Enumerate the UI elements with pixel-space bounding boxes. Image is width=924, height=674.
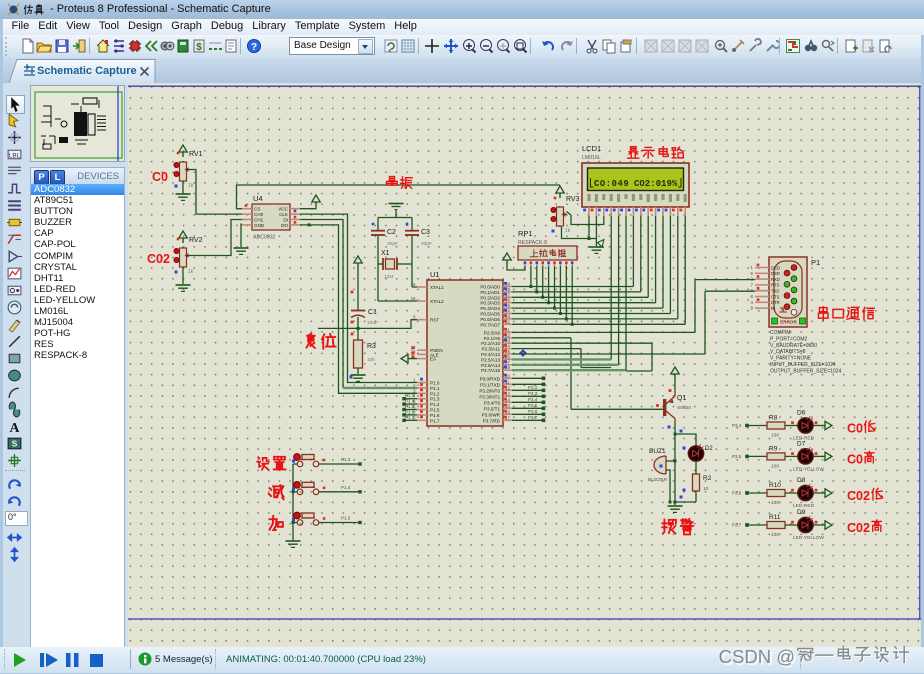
svg-text:C3: C3 bbox=[421, 229, 430, 236]
svg-text:DTR: DTR bbox=[771, 300, 780, 305]
svg-text:P3.0/RXD: P3.0/RXD bbox=[480, 376, 501, 381]
svg-text:P3.2: P3.2 bbox=[528, 385, 538, 390]
svg-text:COMPIM: COMPIM bbox=[770, 330, 791, 336]
svg-text:CO:049: CO:049 bbox=[594, 179, 629, 189]
svg-text:EA: EA bbox=[430, 357, 437, 362]
svg-text:C02: C02 bbox=[847, 489, 870, 503]
svg-text:R11: R11 bbox=[769, 514, 781, 521]
svg-text:12M: 12M bbox=[384, 274, 393, 280]
svg-text:ADC0832: ADC0832 bbox=[253, 235, 276, 241]
svg-text:P3.5/T1: P3.5/T1 bbox=[484, 406, 501, 411]
svg-text:18: 18 bbox=[411, 296, 416, 301]
svg-text:P2.5/A13: P2.5/A13 bbox=[481, 357, 500, 362]
svg-text:C2: C2 bbox=[387, 229, 396, 236]
svg-text:U1: U1 bbox=[430, 270, 440, 279]
svg-text:P1.4: P1.4 bbox=[405, 399, 415, 404]
svg-text:P3.4/T0: P3.4/T0 bbox=[484, 400, 501, 405]
svg-text:LED-YELLOW: LED-YELLOW bbox=[793, 466, 824, 472]
svg-text:RV2: RV2 bbox=[189, 237, 203, 244]
svg-text:CTS: CTS bbox=[771, 294, 780, 299]
svg-text:V_PARITY=NONE: V_PARITY=NONE bbox=[770, 356, 812, 362]
svg-text:P1.6: P1.6 bbox=[430, 413, 440, 418]
svg-text:CH0: CH0 bbox=[254, 212, 264, 217]
svg-text:30pF: 30pF bbox=[387, 241, 398, 247]
svg-text:LCD1: LCD1 bbox=[582, 144, 601, 153]
svg-text:BUZ1: BUZ1 bbox=[649, 448, 666, 455]
svg-text:P2.4/A12: P2.4/A12 bbox=[481, 352, 500, 357]
svg-text:XTAL1: XTAL1 bbox=[430, 285, 444, 290]
svg-text:CSDN @: CSDN @ bbox=[719, 646, 795, 667]
svg-text:CLK: CLK bbox=[279, 212, 289, 217]
svg-text:100: 100 bbox=[771, 500, 779, 506]
svg-text:XTAL2: XTAL2 bbox=[430, 299, 444, 304]
svg-text:10uF: 10uF bbox=[367, 320, 378, 326]
svg-text:P2.1/A9: P2.1/A9 bbox=[484, 336, 501, 341]
svg-text:C02: C02 bbox=[847, 521, 870, 535]
svg-text:RP1: RP1 bbox=[518, 229, 533, 238]
svg-text:R3: R3 bbox=[367, 343, 376, 350]
svg-text:P1: P1 bbox=[811, 258, 820, 267]
svg-text:GND: GND bbox=[254, 223, 265, 228]
svg-text:100: 100 bbox=[771, 463, 779, 469]
svg-text:P1.5: P1.5 bbox=[405, 404, 415, 409]
svg-text:R8: R8 bbox=[769, 415, 778, 422]
svg-text:RST: RST bbox=[430, 318, 439, 323]
svg-text:CO2:019%: CO2:019% bbox=[634, 179, 678, 189]
svg-text:P3.3/INT1: P3.3/INT1 bbox=[479, 394, 500, 399]
svg-text:P1.7: P1.7 bbox=[405, 415, 415, 420]
svg-text:P2.6/A14: P2.6/A14 bbox=[481, 363, 500, 368]
svg-text:V_DATABITS=8: V_DATABITS=8 bbox=[770, 349, 806, 355]
svg-text:ERROR: ERROR bbox=[780, 320, 797, 325]
svg-text:DI: DI bbox=[283, 218, 288, 223]
svg-text:D9: D9 bbox=[797, 509, 806, 516]
svg-text:S: S bbox=[12, 439, 18, 449]
svg-text:DSR: DSR bbox=[771, 271, 780, 276]
svg-text:P3.7: P3.7 bbox=[528, 415, 538, 420]
svg-text:100: 100 bbox=[771, 532, 779, 538]
svg-text:C0: C0 bbox=[152, 170, 168, 184]
svg-text:10k: 10k bbox=[367, 357, 375, 363]
svg-text:P2.0/A8: P2.0/A8 bbox=[484, 330, 501, 335]
svg-text:RXD: RXD bbox=[771, 277, 780, 282]
svg-text:P1.4: P1.4 bbox=[341, 485, 351, 490]
svg-text:S8550: S8550 bbox=[677, 405, 691, 411]
svg-text:C1: C1 bbox=[368, 309, 377, 316]
svg-text:P1.7: P1.7 bbox=[430, 418, 440, 423]
svg-text:P3.5: P3.5 bbox=[528, 403, 538, 408]
svg-text:D7: D7 bbox=[797, 440, 806, 447]
svg-text:R10: R10 bbox=[769, 482, 781, 489]
svg-text:1k: 1k bbox=[565, 228, 571, 234]
svg-text:P3.5: P3.5 bbox=[732, 454, 742, 459]
svg-text:$: $ bbox=[196, 42, 202, 53]
svg-text:R9: R9 bbox=[769, 445, 778, 452]
svg-text:100: 100 bbox=[771, 433, 779, 439]
svg-text:Q1: Q1 bbox=[677, 395, 686, 402]
svg-text:LM016L: LM016L bbox=[582, 155, 601, 161]
svg-text:BUZZER: BUZZER bbox=[648, 477, 668, 483]
svg-text:RTS: RTS bbox=[771, 283, 780, 288]
svg-text:P3.4: P3.4 bbox=[732, 423, 742, 428]
svg-text:P1.1: P1.1 bbox=[430, 386, 440, 391]
svg-text:D2: D2 bbox=[705, 446, 713, 452]
svg-text:C0: C0 bbox=[847, 422, 863, 436]
svg-text:P3.3: P3.3 bbox=[528, 391, 538, 396]
svg-text:U4: U4 bbox=[253, 194, 263, 203]
svg-text:C0: C0 bbox=[847, 452, 863, 466]
svg-text:P1.6: P1.6 bbox=[405, 409, 415, 414]
svg-text:P0.4/AD4: P0.4/AD4 bbox=[480, 306, 500, 311]
svg-text:P1.3: P1.3 bbox=[405, 393, 415, 398]
svg-text:C02: C02 bbox=[147, 252, 170, 266]
svg-text:P3.4: P3.4 bbox=[528, 397, 538, 402]
svg-text:1k: 1k bbox=[188, 183, 194, 189]
svg-text:RI: RI bbox=[771, 306, 775, 311]
svg-text:P1.3: P1.3 bbox=[341, 457, 351, 462]
svg-text:P2.3/A11: P2.3/A11 bbox=[481, 347, 500, 352]
svg-text:CH1: CH1 bbox=[254, 218, 264, 223]
svg-text:A: A bbox=[10, 420, 20, 435]
svg-text:P_PORT=COM2: P_PORT=COM2 bbox=[770, 336, 807, 342]
svg-text:P2.7/A15: P2.7/A15 bbox=[481, 368, 500, 373]
svg-text:INPUT_BUFFER_SIZE=1024: INPUT_BUFFER_SIZE=1024 bbox=[770, 362, 836, 368]
svg-text:RV1: RV1 bbox=[189, 151, 203, 158]
svg-text:P3.1/TXD: P3.1/TXD bbox=[480, 382, 501, 387]
svg-text:P1.2: P1.2 bbox=[430, 391, 440, 396]
svg-text:P0.3/AD3: P0.3/AD3 bbox=[480, 301, 500, 306]
svg-text:19: 19 bbox=[411, 282, 416, 287]
svg-text:R2: R2 bbox=[703, 475, 712, 482]
svg-text:DCD: DCD bbox=[771, 265, 780, 270]
svg-text:CS: CS bbox=[254, 207, 260, 212]
svg-text:P1.5: P1.5 bbox=[430, 408, 440, 413]
svg-text:P0.7/AD7: P0.7/AD7 bbox=[480, 322, 500, 327]
svg-text:OUTPUT_BUFFER_SIZE=1024: OUTPUT_BUFFER_SIZE=1024 bbox=[770, 368, 841, 374]
svg-text:V_BAUDRATE=9600: V_BAUDRATE=9600 bbox=[770, 343, 817, 349]
svg-text:P3.6: P3.6 bbox=[528, 409, 538, 414]
svg-text:1k: 1k bbox=[188, 269, 194, 275]
svg-text:P3.6/WR: P3.6/WR bbox=[482, 412, 501, 417]
svg-text:DO: DO bbox=[281, 223, 288, 228]
svg-text:P3.2/INT0: P3.2/INT0 bbox=[479, 388, 500, 393]
svg-text:30pF: 30pF bbox=[421, 241, 432, 247]
svg-text:X1: X1 bbox=[381, 250, 390, 257]
svg-text:P0.0/AD0: P0.0/AD0 bbox=[480, 285, 500, 290]
svg-text:P1.3: P1.3 bbox=[430, 397, 440, 402]
svg-text:RV3: RV3 bbox=[566, 196, 580, 203]
svg-text:D8: D8 bbox=[797, 477, 806, 484]
svg-text:D6: D6 bbox=[797, 410, 806, 417]
svg-text:P1.4: P1.4 bbox=[430, 402, 440, 407]
svg-text:VCC: VCC bbox=[278, 207, 288, 212]
svg-text:P1.5: P1.5 bbox=[341, 516, 351, 521]
svg-text:P3.7/RD: P3.7/RD bbox=[483, 418, 501, 423]
svg-text:TXD: TXD bbox=[771, 289, 779, 294]
svg-text:P0.6/AD6: P0.6/AD6 bbox=[480, 317, 500, 322]
svg-text:LBL: LBL bbox=[9, 153, 21, 160]
svg-text:P2.2/A10: P2.2/A10 bbox=[481, 341, 500, 346]
svg-text:?: ? bbox=[251, 42, 257, 53]
svg-text:RESPACK-8: RESPACK-8 bbox=[518, 240, 547, 246]
svg-text:P1.0: P1.0 bbox=[430, 381, 440, 386]
svg-text:P3.6: P3.6 bbox=[732, 491, 742, 496]
svg-text:P0.1/AD1: P0.1/AD1 bbox=[480, 290, 500, 295]
svg-text:P3.7: P3.7 bbox=[732, 523, 742, 528]
svg-text:LED-YELLOW: LED-YELLOW bbox=[793, 535, 824, 541]
svg-text:P0.5/AD5: P0.5/AD5 bbox=[480, 312, 500, 317]
svg-text:P0.2/AD2: P0.2/AD2 bbox=[480, 295, 500, 300]
svg-text:10: 10 bbox=[703, 486, 709, 492]
